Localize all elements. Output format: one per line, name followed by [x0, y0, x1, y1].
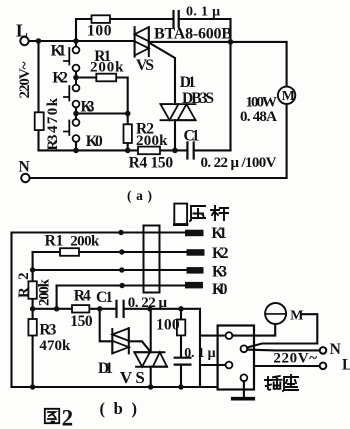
svg-text:M: M: [282, 89, 295, 104]
svg-text:C1: C1: [96, 289, 113, 306]
svg-text:C1: C1: [184, 128, 200, 145]
svg-text:L: L: [342, 357, 350, 374]
svg-text:200k: 200k: [90, 60, 124, 76]
svg-text:L: L: [16, 21, 28, 41]
svg-text:N: N: [330, 341, 341, 358]
svg-text:D1: D1: [98, 360, 113, 377]
svg-text:R3: R3: [39, 322, 56, 339]
svg-text:K2: K2: [52, 70, 68, 87]
svg-text:470k: 470k: [45, 97, 61, 133]
svg-text:100: 100: [87, 23, 112, 40]
svg-text:R4: R4: [74, 288, 91, 305]
svg-text:K1: K1: [51, 43, 67, 60]
svg-text:0. 22 μ: 0. 22 μ: [128, 295, 168, 311]
svg-text:R4 150: R4 150: [129, 155, 174, 172]
svg-text:K3: K3: [212, 263, 227, 280]
svg-text:K3: K3: [81, 99, 95, 116]
svg-text:D1: D1: [180, 74, 196, 91]
svg-text:220V~: 220V~: [273, 351, 317, 367]
svg-text:200k: 200k: [37, 278, 53, 306]
svg-text:R3: R3: [45, 135, 61, 151]
svg-text:VS: VS: [120, 368, 145, 387]
svg-text:0. 48A: 0. 48A: [240, 109, 277, 125]
svg-text:0. 1 μ: 0. 1 μ: [186, 5, 220, 20]
svg-text:0. 22 μ /100V: 0. 22 μ /100V: [201, 155, 277, 171]
svg-text:VS: VS: [136, 57, 154, 74]
svg-text:R1: R1: [45, 232, 64, 249]
svg-text:K2: K2: [212, 245, 229, 262]
svg-text:K0: K0: [86, 133, 103, 150]
svg-text:0. 1 μ: 0. 1 μ: [184, 346, 215, 361]
svg-text:100: 100: [156, 316, 180, 333]
svg-text:BTA8-600B: BTA8-600B: [154, 26, 232, 43]
svg-text:(b): (b): [100, 399, 138, 418]
svg-text:2: 2: [62, 406, 74, 429]
svg-text:150: 150: [70, 313, 93, 330]
svg-text:100W: 100W: [246, 94, 278, 110]
svg-text:200k: 200k: [70, 233, 100, 249]
svg-text:M: M: [290, 308, 303, 323]
svg-text:220V~: 220V~: [17, 61, 33, 98]
svg-text:200k: 200k: [136, 133, 168, 149]
svg-text:(a): (a): [127, 188, 152, 203]
svg-text:DB3S: DB3S: [182, 90, 214, 107]
svg-text:N: N: [19, 159, 30, 176]
svg-text:470k: 470k: [39, 338, 71, 354]
svg-text:K1: K1: [211, 225, 227, 242]
svg-text:K0: K0: [212, 281, 228, 298]
